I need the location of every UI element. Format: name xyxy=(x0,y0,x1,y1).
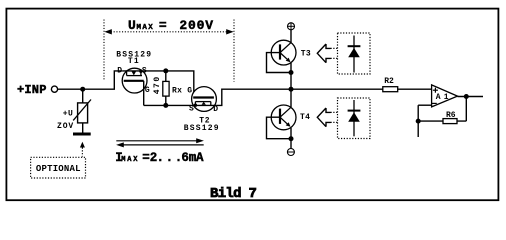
annotation optional arrow xyxy=(80,142,85,157)
svg-text:+INP: +INP xyxy=(17,83,47,97)
wire bottom rail T1 gate to T2 source xyxy=(144,104,192,106)
transistor T2 BSS129 depletion MOSFET xyxy=(184,87,220,134)
junction feedback xyxy=(416,119,421,124)
svg-text:=: = xyxy=(159,18,167,33)
transistor T1 BSS129 depletion MOSFET xyxy=(116,50,152,95)
wire T3 emitter down xyxy=(290,63,292,89)
annotation coupling arrow lower xyxy=(317,108,337,127)
svg-text:T1: T1 xyxy=(128,57,140,66)
svg-text:S: S xyxy=(189,105,194,114)
ground xyxy=(73,133,91,136)
svg-text:U: U xyxy=(128,18,136,33)
wire output xyxy=(458,96,484,98)
wire top rail T1 source to T2 gate xyxy=(147,71,194,97)
dimension Umax = 200V xyxy=(104,18,234,81)
wire inverting riser xyxy=(417,105,419,137)
junction bottom rail / RxG xyxy=(163,103,168,108)
annotation OPTIONAL box xyxy=(31,157,86,178)
optocoupler box lower xyxy=(338,98,371,139)
wire feedback riser xyxy=(465,97,467,122)
junction output xyxy=(464,94,469,99)
svg-text:MAX: MAX xyxy=(121,156,139,164)
svg-text:T4: T4 xyxy=(300,113,310,122)
wire T4 emitter down xyxy=(290,128,292,149)
svg-text:S: S xyxy=(142,66,147,75)
transistor T3 xyxy=(271,40,311,65)
svg-text:...: ... xyxy=(157,151,184,165)
svg-text:BSS129: BSS129 xyxy=(184,124,220,133)
svg-text:200V: 200V xyxy=(179,18,213,33)
power +supply symbol xyxy=(287,22,295,30)
optocoupler box upper xyxy=(338,33,371,74)
varistor ZOV xyxy=(57,89,91,132)
junction top rail / RxG xyxy=(163,68,168,73)
junction T3 base-emitter xyxy=(289,70,294,75)
svg-text:R2: R2 xyxy=(384,77,394,86)
wire T4 base tie xyxy=(267,117,292,139)
svg-text:A 1: A 1 xyxy=(436,93,449,102)
svg-text:ZOV: ZOV xyxy=(57,122,74,131)
resistor R2 xyxy=(383,77,398,92)
svg-text:G: G xyxy=(145,86,150,95)
svg-text:470: 470 xyxy=(153,75,162,94)
svg-text:Rx G: Rx G xyxy=(172,86,192,95)
svg-text:+U: +U xyxy=(63,110,74,119)
wire T1 gate to bottom rail xyxy=(143,81,145,106)
wire main rail to T4 collector xyxy=(290,89,292,107)
wire +supply to T3 collector xyxy=(290,30,292,43)
svg-text:Bild 7: Bild 7 xyxy=(210,186,257,202)
svg-text:MAX: MAX xyxy=(137,24,155,32)
diode upper xyxy=(348,36,361,73)
annotation Imax arrows xyxy=(115,138,204,165)
resistor RxG 470 xyxy=(153,71,193,106)
diode lower xyxy=(348,100,361,136)
op-amp A1 xyxy=(432,85,458,107)
node +INP input terminal xyxy=(17,83,58,97)
wire +INP to T1 drain xyxy=(58,71,123,89)
junction main rail T3/T4 xyxy=(289,87,294,92)
annotation coupling arrow upper xyxy=(317,44,337,63)
junction T4 base-emitter xyxy=(289,136,294,141)
wire T3 base tie xyxy=(267,53,292,73)
wire R2 to op-amp xyxy=(398,88,432,90)
transistor T4 xyxy=(271,105,310,130)
svg-text:=2: =2 xyxy=(142,151,157,165)
junction input/varistor xyxy=(80,87,85,92)
svg-text:OPTIONAL: OPTIONAL xyxy=(36,164,81,174)
svg-text:T3: T3 xyxy=(301,50,311,59)
svg-text:D: D xyxy=(117,66,122,75)
resistor R6 xyxy=(418,111,466,123)
wire T2 drain to main rail xyxy=(216,89,382,105)
power -supply symbol xyxy=(287,149,295,156)
svg-text:6mA: 6mA xyxy=(181,151,204,165)
svg-text:D: D xyxy=(213,105,218,114)
wire op-amp inverting input xyxy=(418,104,431,106)
